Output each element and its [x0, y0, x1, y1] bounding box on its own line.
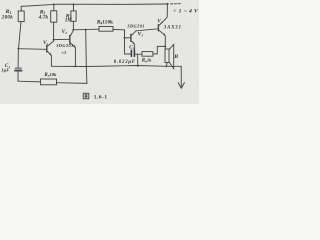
wire V2 collector to R4 [73, 28, 99, 31]
node riser rail crossing [85, 66, 87, 68]
transistor V1 [47, 41, 54, 56]
wire dashed supply lead [171, 3, 182, 5]
wire V4 collector to rail [165, 4, 168, 20]
speaker B [165, 44, 174, 68]
wire negative terminal drop [180, 66, 182, 87]
wire V4 emitter to speaker [164, 36, 166, 49]
wire V2 emitter down [74, 48, 76, 67]
transistor V3 [131, 31, 136, 45]
node V2 collector junction [72, 29, 74, 31]
node V1 collector / V2 base junction [53, 39, 55, 41]
node feedback riser top junction [85, 29, 87, 31]
node supply terminal dot [166, 3, 168, 5]
wire V1 collector to R3 [53, 22, 55, 41]
node stub rail junction [137, 65, 139, 67]
wire V1 emitter down [50, 56, 52, 66]
capacitor C1 [15, 68, 22, 81]
node R2 rail junction [73, 4, 75, 6]
wire C3-R6 node to rail stub [137, 54, 139, 65]
wire feedback riser [86, 30, 87, 84]
transistor V2 [70, 30, 76, 48]
resistor R6 [142, 46, 165, 56]
wire V3 emitter to C3 [134, 44, 136, 50]
resistor R3 [51, 4, 57, 22]
resistor R5 [41, 79, 57, 85]
wire V3 collector to V4 base [136, 29, 158, 31]
wire R1 to C1 [17, 49, 19, 68]
transistor V4 [158, 20, 165, 36]
node V1 base junction [17, 48, 19, 50]
node R6 / V4 emitter junction [164, 45, 166, 47]
wire V1 base [18, 48, 46, 51]
wire top rail [21, 4, 167, 6]
node R3 rail junction [53, 3, 55, 5]
node V3 base junction [124, 37, 126, 39]
wire V3 base [125, 37, 131, 39]
caption 图 1.6-1 [83, 93, 89, 99]
negative supply arrow [178, 83, 184, 89]
resistor R2 [71, 5, 76, 30]
wire bottom left rail [18, 80, 41, 83]
resistor R4 [99, 27, 125, 54]
wire V2 base [54, 38, 70, 40]
node V2 emitter rail junction [74, 65, 76, 67]
wire R5 to feedback riser [57, 82, 87, 85]
resistor R1 [18, 6, 24, 48]
wire emitter ground rail [51, 66, 181, 67]
node speaker bottom junction [165, 65, 167, 67]
capacitor C3 [125, 50, 143, 56]
